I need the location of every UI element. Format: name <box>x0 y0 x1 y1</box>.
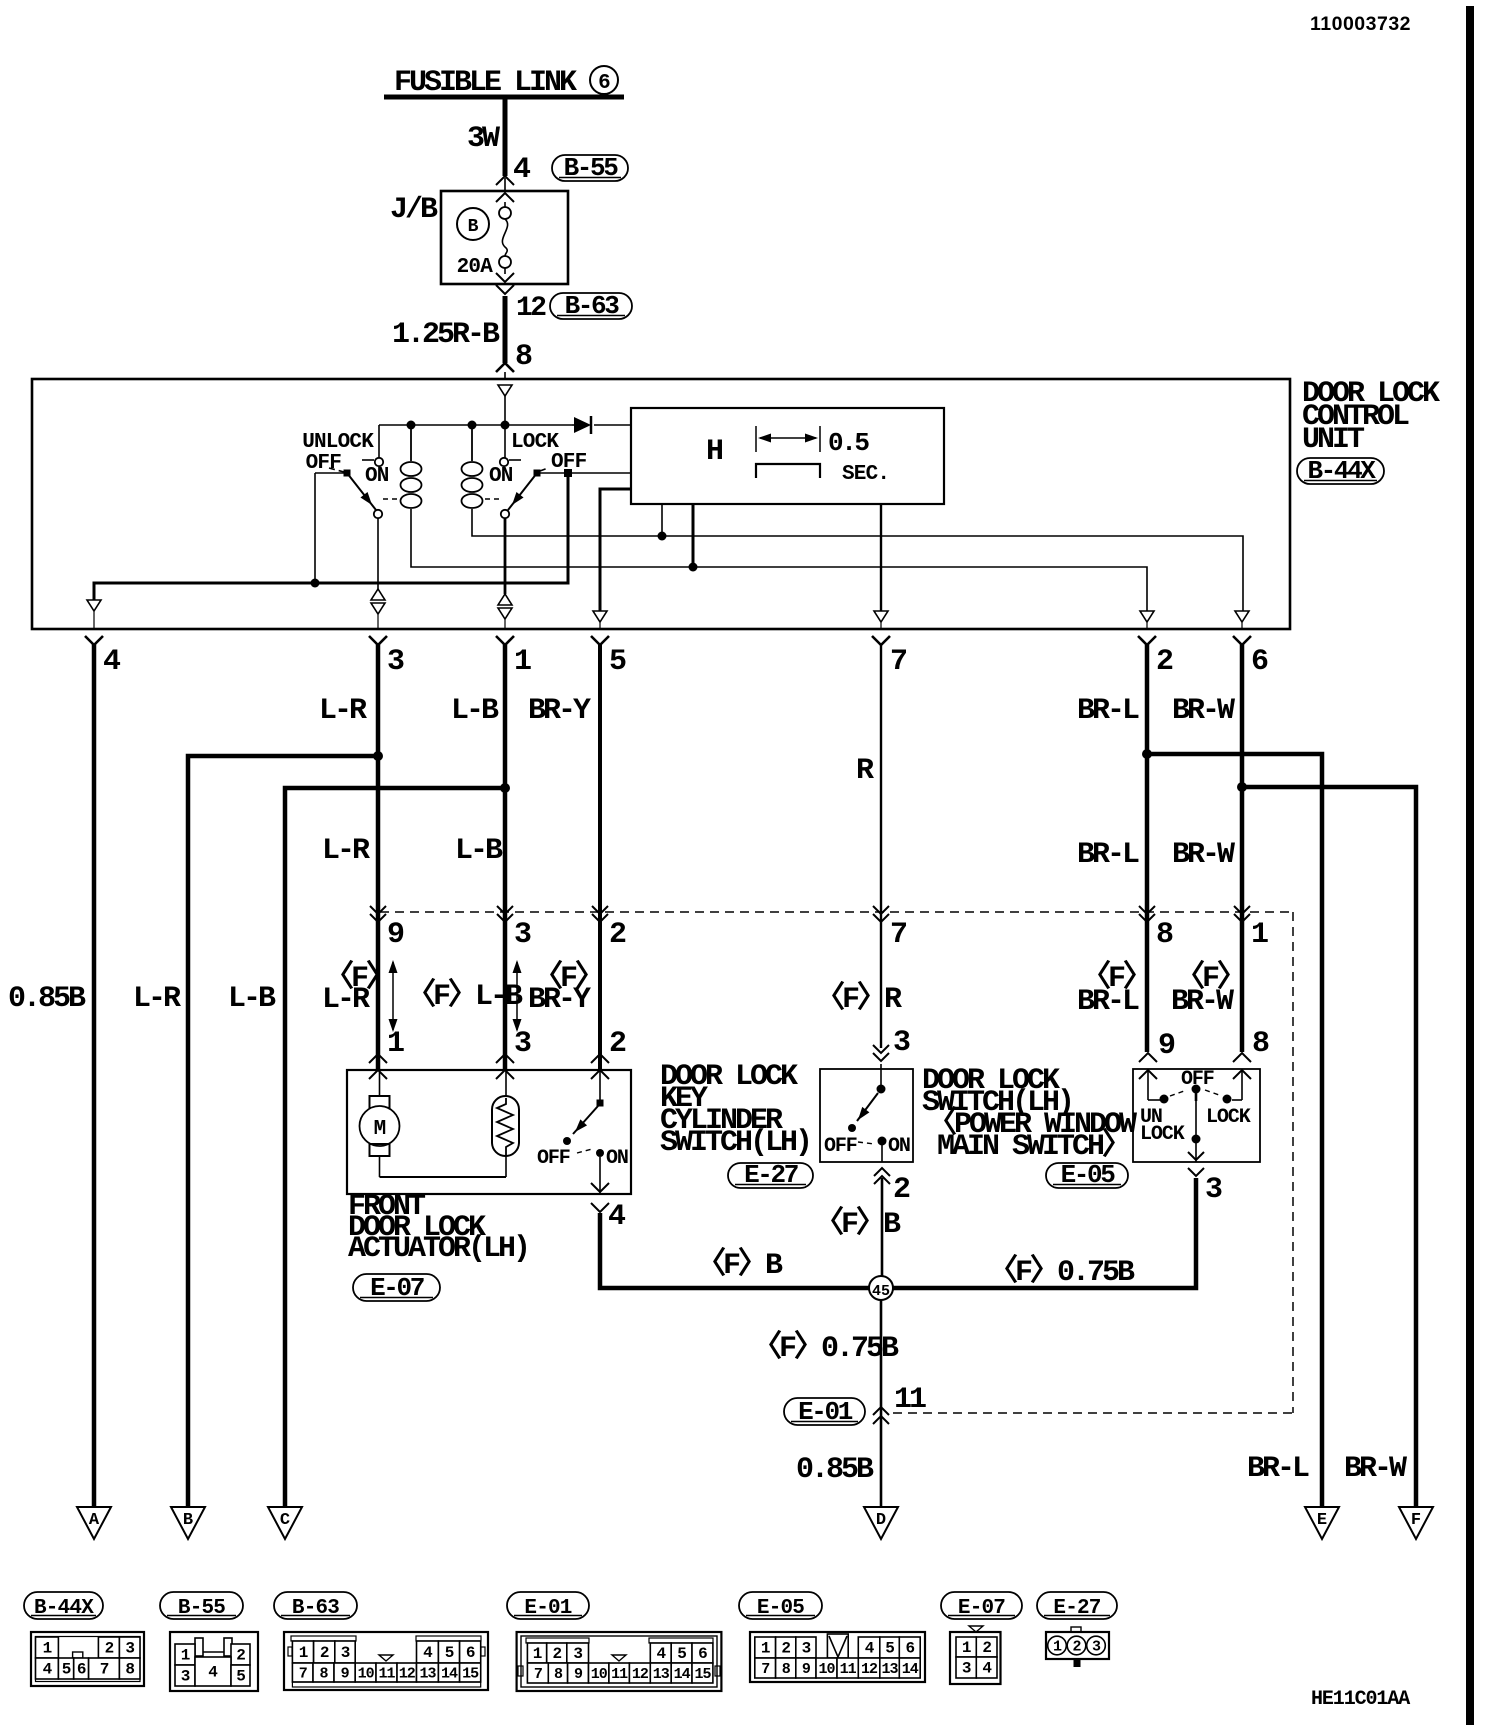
door lock switch pin9 stub <box>1147 1069 1149 1100</box>
unlock relay pivot contact <box>344 470 351 477</box>
F-harness crossing pin 9 <box>370 906 386 914</box>
svg-text:7: 7 <box>100 1661 109 1679</box>
svg-text:OFF: OFF <box>537 1147 570 1170</box>
svg-text:SEC.: SEC. <box>842 463 889 486</box>
wire BR-L pin2 <box>1145 644 1150 1052</box>
terminal C <box>268 1507 302 1539</box>
svg-text:8: 8 <box>125 1661 134 1679</box>
svg-text:E: E <box>1317 1511 1327 1530</box>
svg-text:B: B <box>183 1511 193 1530</box>
wire H box to pin7 <box>880 504 882 611</box>
svg-text:12: 12 <box>632 1666 649 1683</box>
svg-text:BR-Y: BR-Y <box>528 983 591 1017</box>
wire L-B branch to terminal C <box>285 788 505 1507</box>
wire L-R branch to terminal B <box>188 756 378 1507</box>
svg-text:1: 1 <box>533 1645 542 1663</box>
fuse 20A symbol <box>504 202 506 207</box>
door lock switch common contact <box>1192 1085 1201 1094</box>
lock relay lower contact <box>501 510 509 518</box>
svg-text:12: 12 <box>516 293 546 324</box>
wire 1.25R-B <box>503 296 508 363</box>
svg-text:BR-W: BR-W <box>1172 694 1235 728</box>
key cylinder ON contact <box>878 1137 887 1146</box>
svg-text:L-B: L-B <box>451 694 499 728</box>
lock relay ON overbar <box>509 459 521 461</box>
door lock switch pin 8 entry <box>1233 1053 1251 1062</box>
svg-text:2: 2 <box>1156 645 1173 679</box>
actuator pin 2 entry arrows <box>591 1054 609 1063</box>
svg-text:2: 2 <box>1072 1639 1081 1656</box>
unlock relay OFF dash <box>329 468 344 472</box>
door lock switch box <box>1133 1069 1260 1162</box>
svg-text:BR-L: BR-L <box>1077 694 1139 728</box>
unlock relay coil <box>410 425 412 461</box>
svg-text:〈F〉0.75B: 〈F〉0.75B <box>752 1330 899 1366</box>
svg-text:11: 11 <box>894 1383 926 1417</box>
svg-text:7: 7 <box>890 918 906 952</box>
E-01 crossing arrows <box>873 1407 889 1415</box>
actuator switch link dash <box>577 1149 592 1153</box>
control unit pin 1 terminal fork <box>496 636 514 645</box>
svg-text:6: 6 <box>698 1645 707 1663</box>
connector E-05 pinout <box>750 1632 925 1682</box>
svg-text:6: 6 <box>905 1640 914 1658</box>
svg-text:5: 5 <box>609 645 626 679</box>
svg-text:3: 3 <box>573 1645 582 1663</box>
svg-text:8: 8 <box>782 1661 791 1678</box>
wire coil-L to pin6 <box>472 509 1243 611</box>
lock relay coil <box>471 425 473 461</box>
control unit pin 7 terminal fork <box>872 636 890 645</box>
motor bottom rail <box>380 1176 507 1178</box>
wire pin4 rail <box>94 583 568 600</box>
junction BR-L branch <box>1142 749 1152 759</box>
pin 4 internal marker <box>87 600 101 611</box>
unlock relay ON contact <box>378 425 380 458</box>
lock relay link dash <box>485 498 501 500</box>
svg-text:E-01: E-01 <box>798 1397 853 1427</box>
svg-text:13: 13 <box>653 1666 670 1683</box>
svg-text:BR-L: BR-L <box>1077 985 1139 1019</box>
connector B-44X pinout <box>31 1632 144 1686</box>
svg-text:3: 3 <box>514 1027 531 1061</box>
svg-text:OFF: OFF <box>824 1135 857 1158</box>
connector label B-55 <box>552 155 628 181</box>
junction coil L <box>468 421 477 430</box>
timer box H <box>631 408 944 504</box>
connector label E-01 ref <box>784 1398 865 1425</box>
svg-text:B-55: B-55 <box>564 153 619 183</box>
svg-text:3: 3 <box>962 1660 971 1678</box>
svg-text:B-63: B-63 <box>565 291 620 321</box>
connector B-63 label <box>274 1592 357 1619</box>
terminal arrow inside J/B <box>496 193 514 202</box>
svg-text:1: 1 <box>43 1640 52 1658</box>
actuator switch ON contact <box>596 1149 604 1157</box>
svg-text:B: B <box>468 217 479 237</box>
wire L-B pin1 to actuator <box>503 644 508 1069</box>
connector label B-44X <box>1297 458 1384 484</box>
wire BR-W pin6 <box>1240 644 1245 1052</box>
key cylinder exit arrows <box>874 1168 890 1176</box>
door lock key cylinder switch box <box>820 1069 913 1162</box>
svg-text:3: 3 <box>514 918 531 952</box>
svg-text:9: 9 <box>802 1661 811 1678</box>
lock relay ON contact <box>504 425 506 458</box>
svg-text:12: 12 <box>861 1661 878 1678</box>
svg-text:6: 6 <box>466 1644 475 1662</box>
F-harness crossing pin 1 <box>1234 906 1250 914</box>
unlock relay arm <box>347 473 376 510</box>
svg-text:〈F〉B: 〈F〉B <box>696 1247 783 1283</box>
wire actuator pin4 to junction 45 <box>600 1213 869 1288</box>
wire BR-Y pin5 to actuator <box>598 644 602 1069</box>
svg-text:2: 2 <box>320 1644 329 1662</box>
F-harness crossing pin 2 <box>592 906 608 914</box>
connector label E-05 ref <box>1046 1163 1128 1188</box>
wire H box to coil-L rail <box>661 504 663 536</box>
junction pin8/lock contact <box>501 421 510 430</box>
control unit pin 6 terminal fork <box>1233 636 1251 645</box>
timer pulse waveform <box>756 464 820 478</box>
svg-text:2: 2 <box>982 1639 991 1657</box>
connector E-27 pinout <box>1071 1627 1081 1632</box>
svg-text:ON: ON <box>365 465 389 488</box>
svg-text:E-01: E-01 <box>524 1597 571 1620</box>
svg-text:2: 2 <box>781 1640 790 1658</box>
pin 8 internal marker <box>498 385 512 396</box>
svg-text:BR-L: BR-L <box>1077 838 1139 872</box>
svg-text:3: 3 <box>893 1026 910 1060</box>
svg-text:0.85B: 0.85B <box>796 1453 874 1487</box>
svg-text:L-B: L-B <box>228 982 276 1016</box>
svg-text:0.5: 0.5 <box>828 428 869 458</box>
thermal protector <box>505 1070 507 1100</box>
svg-text:LOCK: LOCK <box>1140 1123 1185 1146</box>
svg-text:8: 8 <box>515 340 532 374</box>
bidir arrow F L-R <box>392 962 394 1030</box>
control unit pin 5 terminal fork <box>591 636 609 645</box>
svg-text:E-27: E-27 <box>744 1160 798 1190</box>
svg-text:5: 5 <box>885 1640 894 1658</box>
svg-text:4: 4 <box>208 1664 218 1682</box>
svg-text:4: 4 <box>423 1644 433 1662</box>
svg-text:H: H <box>706 435 722 469</box>
svg-text:E-07: E-07 <box>958 1597 1005 1620</box>
front door lock actuator box <box>347 1070 631 1194</box>
pin 7 internal marker <box>874 611 888 622</box>
svg-text:D: D <box>876 1511 886 1530</box>
svg-text:2: 2 <box>105 1640 114 1658</box>
connector B-55 pinout <box>170 1632 258 1691</box>
svg-text:3: 3 <box>387 645 404 679</box>
svg-text:5: 5 <box>677 1645 686 1663</box>
motor M1 <box>379 1070 381 1096</box>
svg-text:B-63: B-63 <box>292 1597 339 1620</box>
terminal A <box>77 1507 111 1539</box>
svg-text:C: C <box>280 1511 290 1530</box>
connector B-55 label <box>160 1592 243 1619</box>
junction L-R branch <box>373 751 383 761</box>
junction L-B branch <box>500 783 510 793</box>
svg-text:11: 11 <box>611 1666 628 1683</box>
svg-text:4: 4 <box>865 1640 875 1658</box>
wire key cylinder to junction 45 <box>881 1178 884 1277</box>
junction 45 <box>869 1276 893 1300</box>
svg-text:1: 1 <box>299 1644 308 1662</box>
connector label E-27 ref <box>728 1163 813 1188</box>
svg-text:B-44X: B-44X <box>1307 456 1376 486</box>
F-harness crossing pin 7 <box>873 906 889 914</box>
svg-text:E-05: E-05 <box>757 1597 804 1620</box>
svg-text:UNIT: UNIT <box>1302 423 1365 457</box>
svg-text:E-27: E-27 <box>1053 1597 1100 1620</box>
lock relay arm <box>508 473 537 510</box>
svg-text:LOCK: LOCK <box>1206 1106 1251 1129</box>
svg-text:3W: 3W <box>467 122 500 156</box>
svg-text:8: 8 <box>1156 918 1173 952</box>
svg-text:1: 1 <box>1251 918 1268 952</box>
svg-text:4: 4 <box>43 1661 53 1679</box>
svg-text:12: 12 <box>399 1666 416 1683</box>
svg-text:110003732: 110003732 <box>1310 13 1411 35</box>
door lock switch exit arrows <box>1188 1152 1204 1160</box>
key cylinder wire to pin2 <box>881 1145 883 1162</box>
svg-text:9: 9 <box>387 918 404 952</box>
scan artifact bar right edge <box>1466 6 1474 1725</box>
svg-text:13: 13 <box>419 1666 436 1683</box>
pin 1 internal marker <box>498 594 512 605</box>
door lock switch pin8 stub <box>1241 1069 1243 1100</box>
svg-text:L-R: L-R <box>133 982 181 1016</box>
svg-text:0.85B: 0.85B <box>8 982 86 1016</box>
svg-text:1: 1 <box>387 1027 404 1061</box>
svg-text:A: A <box>89 1511 100 1530</box>
wire door lock switch to junction 45 <box>893 1178 1196 1288</box>
connector label E-07 ref <box>353 1274 440 1301</box>
timer dimension marks <box>755 426 757 452</box>
svg-text:9: 9 <box>1158 1029 1175 1063</box>
svg-text:7: 7 <box>890 645 906 679</box>
svg-text:4: 4 <box>982 1660 992 1678</box>
actuator switch upper contact <box>599 1070 601 1100</box>
key cylinder link dash <box>858 1142 874 1144</box>
svg-text:8: 8 <box>319 1666 328 1683</box>
pin 6 internal marker <box>1235 611 1249 622</box>
svg-text:7: 7 <box>761 1661 769 1678</box>
key cylinder entry arrows <box>873 1045 889 1053</box>
terminal arrow into J/B <box>496 176 514 185</box>
svg-text:10: 10 <box>818 1661 835 1678</box>
svg-text:〈F〉R: 〈F〉R <box>815 981 902 1017</box>
svg-text:2: 2 <box>609 918 626 952</box>
diode D1 <box>574 417 591 433</box>
svg-text:14: 14 <box>441 1666 458 1683</box>
connector E-07 label <box>941 1592 1022 1619</box>
wire coil-U to pin2 <box>411 509 1147 611</box>
wire: battery feed from fusible link <box>503 97 508 176</box>
wire 0.85B to terminal A <box>92 644 97 1507</box>
connector E-05 label <box>739 1592 822 1619</box>
unlock relay link dash <box>383 498 399 500</box>
svg-text:2: 2 <box>236 1647 245 1665</box>
svg-text:10: 10 <box>358 1666 375 1683</box>
svg-text:2: 2 <box>893 1173 910 1207</box>
svg-text:3: 3 <box>125 1640 134 1658</box>
svg-text:5: 5 <box>236 1668 245 1686</box>
svg-text:11: 11 <box>840 1661 857 1678</box>
connector E-27 label <box>1037 1592 1117 1619</box>
svg-text:1: 1 <box>181 1647 190 1665</box>
svg-text:8: 8 <box>1252 1027 1269 1061</box>
svg-text:1.25R-B: 1.25R-B <box>392 318 500 352</box>
svg-text:6: 6 <box>77 1661 86 1679</box>
svg-text:45: 45 <box>872 1283 890 1300</box>
connector B-44X label <box>24 1592 103 1619</box>
wire L-R pin3 to actuator <box>376 644 381 1069</box>
svg-text:10: 10 <box>591 1666 608 1683</box>
svg-text:1: 1 <box>962 1639 971 1657</box>
wire lock lower contact to pin1 <box>504 518 507 594</box>
F-harness crossing pin 8 <box>1139 906 1155 914</box>
wire BR-L branch to terminal E <box>1147 754 1322 1507</box>
svg-text:7: 7 <box>299 1666 307 1683</box>
svg-text:7: 7 <box>534 1666 542 1683</box>
wire unlock lower contact to pin3 <box>377 518 379 589</box>
svg-text:BR-W: BR-W <box>1344 1452 1407 1486</box>
svg-text:14: 14 <box>674 1666 691 1683</box>
terminal F <box>1399 1507 1433 1539</box>
circled B (fuse B) <box>457 208 489 240</box>
control unit pin 4 terminal fork <box>85 636 103 645</box>
wire H box to coil-U rail <box>692 504 695 567</box>
actuator pin 4 exit arrows <box>591 1183 609 1192</box>
svg-text:SWITCH(LH): SWITCH(LH) <box>660 1126 810 1160</box>
control unit pin 3 terminal fork <box>369 636 387 645</box>
svg-text:15: 15 <box>462 1666 479 1683</box>
svg-text:20A: 20A <box>457 256 494 279</box>
door lock switch pin 9 entry <box>1139 1053 1157 1062</box>
svg-text:L-R: L-R <box>319 694 367 728</box>
svg-text:L-R: L-R <box>322 983 370 1017</box>
svg-text:9: 9 <box>574 1666 583 1683</box>
bidir arrow F BR-Y <box>516 962 518 1030</box>
svg-text:UNLOCK: UNLOCK <box>302 431 374 454</box>
svg-text:〈F〉L-B: 〈F〉L-B <box>406 978 523 1014</box>
control unit pin 2 terminal fork <box>1138 636 1156 645</box>
terminal E <box>1305 1507 1339 1539</box>
terminal D <box>864 1507 898 1539</box>
terminal B <box>171 1507 205 1539</box>
svg-text:5: 5 <box>445 1644 454 1662</box>
pin 3 internal marker <box>371 589 385 600</box>
svg-text:ON: ON <box>606 1147 628 1170</box>
actuator pin 1 entry arrows <box>369 1054 387 1063</box>
svg-text:15: 15 <box>694 1666 711 1683</box>
terminal fork into control unit <box>496 363 514 372</box>
svg-text:ON: ON <box>489 465 513 488</box>
svg-text:2: 2 <box>552 1645 561 1663</box>
unlock relay lower contact <box>374 510 382 518</box>
pin 2 internal marker <box>1140 611 1154 622</box>
connector E-07 pinout <box>969 1626 983 1632</box>
svg-text:14: 14 <box>902 1661 919 1678</box>
svg-text:8: 8 <box>554 1666 563 1683</box>
actuator pin 3 entry arrows <box>496 1054 514 1063</box>
lock relay OFF dash <box>540 468 549 472</box>
svg-text:3: 3 <box>181 1668 190 1686</box>
svg-text:9: 9 <box>341 1666 350 1683</box>
svg-text:11: 11 <box>378 1666 395 1683</box>
internal supply rail <box>379 424 572 426</box>
svg-text:3: 3 <box>1205 1173 1222 1207</box>
junction BR-W branch <box>1237 782 1247 792</box>
svg-text:ACTUATOR(LH): ACTUATOR(LH) <box>348 1232 528 1266</box>
door lock switch centre wire <box>1195 1101 1197 1162</box>
svg-text:3: 3 <box>802 1640 811 1658</box>
svg-text:6: 6 <box>1251 645 1268 679</box>
junction coil U <box>407 421 416 430</box>
svg-text:OFF: OFF <box>306 452 342 475</box>
svg-text:1: 1 <box>761 1640 770 1658</box>
connector B-63 pinout <box>284 1632 488 1690</box>
svg-text:3: 3 <box>341 1644 350 1662</box>
key cylinder upper contact <box>880 1064 882 1085</box>
actuator switch arm <box>573 1106 598 1134</box>
svg-text:MAIN SWITCH〉: MAIN SWITCH〉 <box>937 1128 1129 1164</box>
F harness boundary dashed <box>380 911 1293 913</box>
junction pin4/unlock-off <box>311 579 320 588</box>
svg-text:E-05: E-05 <box>1061 1160 1116 1190</box>
svg-text:ON: ON <box>888 1135 910 1158</box>
door lock control unit box <box>32 379 1290 629</box>
unlock relay ON overbar <box>362 459 374 461</box>
junction lock-off branch <box>564 469 572 477</box>
junction H/coil-L <box>658 532 667 541</box>
svg-text:13: 13 <box>882 1661 899 1678</box>
svg-text:〈F〉B: 〈F〉B <box>814 1206 901 1242</box>
svg-text:6: 6 <box>598 72 610 95</box>
key cylinder arm <box>857 1093 878 1121</box>
svg-text:〈F〉0.75B: 〈F〉0.75B <box>988 1254 1135 1290</box>
terminal arrow J/B exit <box>496 273 514 282</box>
connector label B-63 <box>550 293 632 319</box>
J/B junction block box <box>441 191 568 284</box>
svg-text:BR-L: BR-L <box>1247 1452 1309 1486</box>
svg-text:1: 1 <box>1053 1639 1062 1656</box>
svg-text:B-55: B-55 <box>178 1597 225 1620</box>
wire lock-off branch down <box>567 476 570 585</box>
junction H/coil-U <box>689 563 698 572</box>
actuator switch wire to pin4 <box>599 1157 601 1194</box>
svg-text:E-07: E-07 <box>370 1273 424 1303</box>
svg-text:F: F <box>1411 1511 1421 1530</box>
wire H box to pin5 <box>600 489 631 611</box>
svg-text:B-44X: B-44X <box>34 1597 94 1620</box>
svg-text:L-R: L-R <box>322 834 370 868</box>
svg-text:M: M <box>374 1118 386 1141</box>
connector E-01 label <box>507 1592 589 1619</box>
svg-text:BR-W: BR-W <box>1171 985 1234 1019</box>
lock relay pivot contact <box>534 470 541 477</box>
door lock switch dashed arcs <box>1170 1090 1187 1096</box>
wire lock pivot to H box <box>537 472 631 474</box>
svg-text:5: 5 <box>62 1661 71 1679</box>
F-harness crossing pin 3 <box>497 906 513 914</box>
wire 45 to E-01 <box>880 1300 883 1507</box>
svg-text:1: 1 <box>514 645 531 679</box>
svg-text:BR-W: BR-W <box>1172 838 1235 872</box>
